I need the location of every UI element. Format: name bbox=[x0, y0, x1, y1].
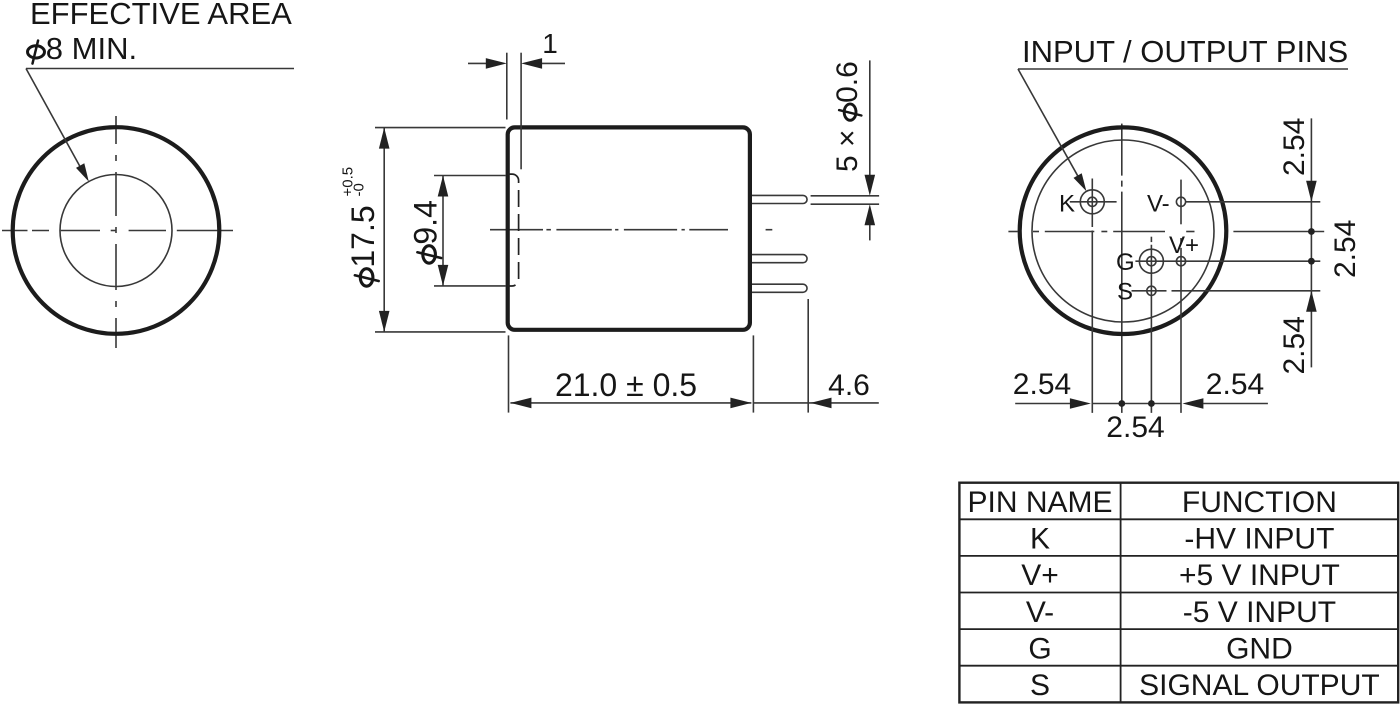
svg-text:FUNCTION: FUNCTION bbox=[1182, 486, 1337, 519]
svg-text:17.5: 17.5 bbox=[345, 205, 381, 267]
svg-text:2.54: 2.54 bbox=[1329, 220, 1362, 278]
svg-text:8 MIN.: 8 MIN. bbox=[46, 31, 137, 66]
svg-text:4.6: 4.6 bbox=[828, 369, 870, 402]
svg-text:5 ×: 5 × bbox=[831, 129, 864, 172]
svg-text:S: S bbox=[1117, 279, 1133, 306]
svg-text:0.6: 0.6 bbox=[831, 61, 864, 103]
svg-text:-HV INPUT: -HV INPUT bbox=[1184, 523, 1334, 556]
svg-text:V-: V- bbox=[1147, 191, 1170, 218]
svg-text:V-: V- bbox=[1026, 596, 1054, 629]
svg-text:EFFECTIVE AREA: EFFECTIVE AREA bbox=[30, 0, 292, 31]
svg-text:SIGNAL OUTPUT: SIGNAL OUTPUT bbox=[1139, 669, 1380, 702]
svg-text:2.54: 2.54 bbox=[1278, 316, 1311, 374]
svg-text:G: G bbox=[1028, 632, 1051, 665]
svg-text:V+: V+ bbox=[1021, 559, 1059, 592]
svg-text:2.54: 2.54 bbox=[1206, 368, 1264, 401]
svg-text:1: 1 bbox=[542, 28, 558, 59]
svg-text:K: K bbox=[1059, 191, 1075, 218]
svg-text:V+: V+ bbox=[1169, 232, 1199, 259]
svg-text:+5 V INPUT: +5 V INPUT bbox=[1179, 559, 1340, 592]
svg-text:INPUT / OUTPUT PINS: INPUT / OUTPUT PINS bbox=[1022, 34, 1348, 69]
svg-text:GND: GND bbox=[1226, 632, 1293, 665]
svg-text:S: S bbox=[1030, 669, 1050, 702]
svg-text:2.54: 2.54 bbox=[1013, 368, 1071, 401]
svg-text:-5 V INPUT: -5 V INPUT bbox=[1183, 596, 1336, 629]
svg-text:PIN NAME: PIN NAME bbox=[967, 486, 1112, 519]
svg-text:2.54: 2.54 bbox=[1106, 411, 1164, 444]
svg-text:21.0 ± 0.5: 21.0 ± 0.5 bbox=[555, 367, 697, 403]
svg-text:2.54: 2.54 bbox=[1278, 118, 1311, 176]
svg-text:G: G bbox=[1116, 249, 1135, 276]
svg-text:-0: -0 bbox=[351, 183, 368, 196]
svg-text:9.4: 9.4 bbox=[408, 200, 444, 244]
svg-text:K: K bbox=[1030, 523, 1050, 556]
